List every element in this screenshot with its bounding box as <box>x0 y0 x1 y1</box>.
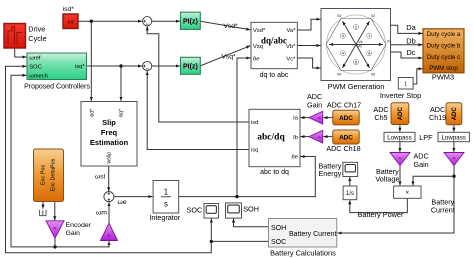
block Proposed Controllers <box>24 53 90 91</box>
svg-text:Battery Power: Battery Power <box>358 210 404 219</box>
wire encoder gain down to bottom bus <box>54 238 56 247</box>
svg-text:isd*: isd* <box>63 6 75 13</box>
block isd* reference constant <box>63 6 78 29</box>
block display SOC <box>204 204 219 219</box>
svg-text:Proposed Controllers: Proposed Controllers <box>24 84 90 91</box>
wire ADC ch17 to gain <box>324 117 333 119</box>
wire enc pos to terminator <box>42 202 44 209</box>
svg-text:Inverter Stop: Inverter Stop <box>380 91 421 100</box>
svg-text:ADC: ADC <box>398 107 404 121</box>
wire gain to Ib <box>301 136 309 138</box>
svg-text:Current: Current <box>431 205 455 214</box>
svg-text:s: s <box>164 200 168 209</box>
wire ADC ch5 to lowpass <box>399 125 401 132</box>
sum junction 3 (we) <box>104 192 114 202</box>
svg-text:Da: Da <box>406 23 416 32</box>
svg-text:V0: V0 <box>357 45 361 49</box>
wire wm up-gain to sum3 <box>108 203 110 223</box>
svg-text:×: × <box>405 190 409 197</box>
svg-text:Vb*: Vb* <box>286 44 296 50</box>
svg-text:Duty cycle a: Duty cycle a <box>427 31 461 38</box>
svg-text:Gain: Gain <box>414 160 429 169</box>
wire PWM out c to PWM3 <box>391 52 423 58</box>
block Lowpass 2 <box>438 132 469 141</box>
svg-text:Vsd*: Vsd* <box>253 28 266 34</box>
wire current down to battery calc <box>338 176 454 233</box>
gain triangle battery voltage ADC gain <box>390 152 429 169</box>
block PWM Generation <box>321 9 391 91</box>
wire wmech bottom bus <box>11 75 109 247</box>
node isd* branch <box>90 20 93 23</box>
svg-text:-K-: -K- <box>398 156 402 160</box>
wire isd* down to slip input 1 <box>90 21 92 100</box>
svg-text:Lowpass: Lowpass <box>441 135 465 142</box>
svg-text:SOH: SOH <box>271 225 286 232</box>
wire SOH to display <box>234 219 269 227</box>
svg-text:SOC: SOC <box>271 239 286 246</box>
svg-text:SOC: SOC <box>186 206 202 215</box>
svg-text:ADC: ADC <box>339 115 353 122</box>
svg-text:Battery Current: Battery Current <box>289 231 337 238</box>
wire current gain down <box>453 166 455 177</box>
svg-text:ADC Ch18: ADC Ch18 <box>326 144 360 153</box>
svg-text:Dc: Dc <box>406 48 415 57</box>
wire isd feedback abc/dq to sum1 <box>147 27 249 122</box>
svg-text:1: 1 <box>404 82 407 88</box>
svg-text:PWM stop: PWM stop <box>429 65 458 72</box>
wire theta-e up to dq/abc <box>237 58 250 197</box>
svg-text:Freq: Freq <box>101 128 118 137</box>
wire SOC feedback long <box>6 66 212 253</box>
svg-text:Drive: Drive <box>28 25 45 34</box>
block dq/abc <box>251 22 297 79</box>
wire PI(z)1 to dq/abc Vsd* <box>200 21 250 30</box>
svg-text:Battery Calculations: Battery Calculations <box>270 248 336 257</box>
svg-text:Enc Pos: Enc Pos <box>41 165 47 185</box>
svg-text:Lowpass: Lowpass <box>387 135 411 142</box>
svg-text:abc/dq: abc/dq <box>257 133 285 143</box>
svg-text:isq*: isq* <box>119 109 125 118</box>
wire sum1 to PI(z)1 <box>152 20 180 22</box>
block PI(z) 1 <box>181 12 201 29</box>
svg-text:V4: V4 <box>337 73 341 77</box>
svg-text:θe: θe <box>292 155 298 161</box>
block Enc Pos encoder <box>34 149 64 202</box>
svg-text:-K-: -K- <box>107 234 111 238</box>
svg-text:PI(z): PI(z) <box>183 19 198 26</box>
wire ADC ch19 to lowpass <box>453 125 455 132</box>
wire current branch to product <box>413 176 454 185</box>
block Integrator <box>149 181 180 223</box>
wire lowpass to adc gain 2 <box>453 142 455 152</box>
wire bus up into speed gain <box>108 242 110 247</box>
wire isq* PC to sum2 <box>87 65 142 67</box>
gain triangle Encoder Gain <box>46 221 92 239</box>
vector spokes <box>330 22 383 68</box>
svg-text:V1: V1 <box>387 40 391 44</box>
svg-text:V5: V5 <box>371 73 375 77</box>
space vector circle <box>327 15 386 74</box>
svg-text:ωm: ωm <box>96 210 107 217</box>
wire ADC ch18 to gain <box>324 136 333 138</box>
svg-text:-K-: -K- <box>53 226 57 230</box>
svg-text:Db: Db <box>406 36 415 45</box>
svg-text:Ib: Ib <box>293 135 298 141</box>
svg-text:Voltage: Voltage <box>375 175 399 184</box>
svg-text:Ch5: Ch5 <box>374 113 387 122</box>
svg-text:Gain: Gain <box>66 230 81 237</box>
wire PWM out a to PWM3 <box>391 25 423 33</box>
node theta-e branch <box>235 195 238 198</box>
svg-text:Energy: Energy <box>319 169 342 178</box>
wire enc deltapos to encoder gain <box>54 202 56 220</box>
wire 1/s to battery energy display <box>349 178 351 187</box>
wire drive cycle to wref <box>15 48 26 57</box>
block display Battery Energy <box>343 162 358 176</box>
svg-text:V2: V2 <box>371 14 375 18</box>
svg-text:abc to dq: abc to dq <box>260 169 289 176</box>
wire adc gain to product <box>399 166 401 186</box>
node encoder speed branch <box>53 245 56 248</box>
wire PWM out b to PWM3 <box>391 44 423 46</box>
svg-text:Encoder: Encoder <box>66 222 92 229</box>
svg-text:Ch19: Ch19 <box>429 113 446 122</box>
svg-text:Duty cycle b: Duty cycle b <box>427 43 461 50</box>
svg-text:isd: isd <box>251 120 258 126</box>
block PWM3 <box>423 29 464 82</box>
svg-text:Vsq*: Vsq* <box>221 54 236 61</box>
svg-text:V3: V3 <box>337 14 341 18</box>
svg-text:isq*: isq* <box>75 64 85 70</box>
svg-text:Va*: Va* <box>286 28 296 34</box>
sum junction 2 (isq) <box>143 61 152 70</box>
svg-text:Slip: Slip <box>102 118 116 127</box>
wire lowpass to adc gain <box>399 142 401 152</box>
svg-text:1: 1 <box>164 187 168 196</box>
wire Vb* to PWM gen <box>297 45 320 47</box>
node isq* branch <box>119 64 122 67</box>
node battery current branch <box>452 175 455 178</box>
sector numbers <box>340 24 372 64</box>
svg-text:θe: θe <box>253 56 259 62</box>
vertex labels <box>337 14 391 76</box>
svg-text:ωe: ωe <box>118 199 127 206</box>
block ADC Ch5 <box>391 103 409 125</box>
node SOC branch <box>210 240 213 243</box>
svg-text:dq/abc: dq/abc <box>261 36 287 46</box>
svg-text:-K-: -K- <box>452 156 456 160</box>
svg-text:PWM Generation: PWM Generation <box>328 82 385 91</box>
wire Vc* to PWM gen <box>297 58 320 68</box>
wire slip output wsl to sum3 <box>108 166 110 191</box>
svg-text:Vsd*: Vsd* <box>223 23 238 30</box>
hexagon perimeter <box>326 19 386 71</box>
block Drive Cycle <box>4 24 47 49</box>
gain triangle Ib <box>309 130 323 143</box>
wire isq* down to slip input 2 <box>120 66 122 100</box>
svg-text:-K-: -K- <box>318 116 322 120</box>
svg-text:Duty cycle c: Duty cycle c <box>427 54 460 61</box>
terminator symbol <box>40 210 46 216</box>
block Slip Freq Estimation <box>81 102 137 167</box>
gain triangle speed scaling <box>101 223 118 241</box>
svg-text:ADC Ch17: ADC Ch17 <box>327 100 361 109</box>
block abc/dq <box>249 109 300 176</box>
svg-text:Integrator: Integrator <box>149 213 180 222</box>
wire isd* ref to sum1 <box>78 20 142 22</box>
svg-text:SOC: SOC <box>29 65 42 71</box>
svg-text:Gain: Gain <box>307 100 322 109</box>
wire SOC from battery calc to display <box>211 219 268 241</box>
svg-text:ADC: ADC <box>339 135 353 142</box>
svg-text:LPF: LPF <box>419 133 433 142</box>
sum junction 1 (isd) <box>143 17 152 26</box>
svg-text:Cycle: Cycle <box>28 34 46 43</box>
svg-text:ADC: ADC <box>452 107 458 121</box>
wire product to 1/s battery power <box>350 198 408 212</box>
svg-text:PI(z): PI(z) <box>183 64 198 71</box>
svg-text:isd*: isd* <box>90 109 96 118</box>
svg-text:Vc*: Vc* <box>286 56 296 62</box>
svg-text:isq: isq <box>251 148 258 154</box>
svg-text:Vs: Vs <box>359 40 363 44</box>
block ADC Ch19 <box>446 103 462 125</box>
block 1/s battery energy integrator <box>343 186 357 200</box>
svg-text:ωmech: ωmech <box>29 74 48 80</box>
block display SOH <box>226 203 242 218</box>
block product (battery power) <box>394 186 421 198</box>
block ADC Ch18 <box>333 130 359 144</box>
svg-text:Enc DeltaPos: Enc DeltaPos <box>50 158 56 191</box>
wire isq feedback abc/dq to sum2 <box>147 72 249 150</box>
svg-text:ωsl: ωsl <box>95 173 106 180</box>
svg-text:-K-: -K- <box>318 135 322 139</box>
wire gain to Ia <box>301 117 309 119</box>
wire Va* to PWM gen <box>297 19 320 30</box>
block PI(z) 2 <box>181 57 201 74</box>
svg-text:ωref: ωref <box>29 55 41 61</box>
svg-text:Estimation: Estimation <box>90 138 129 147</box>
wire sum2 to PI(z)2 <box>152 65 180 67</box>
block Lowpass 1 <box>384 132 415 141</box>
svg-text:wslip: wslip <box>107 152 113 164</box>
svg-text:SOH: SOH <box>243 204 259 213</box>
svg-text:PWM3: PWM3 <box>432 73 454 82</box>
gain triangle battery current ADC gain <box>444 153 464 166</box>
block Inverter Stop constant 1 <box>380 78 421 101</box>
wire theta-e to abc/dq right input <box>301 157 315 197</box>
svg-text:dq to abc: dq to abc <box>260 72 289 79</box>
block ADC Ch17 <box>333 110 359 125</box>
wire integrator out to theta elbow <box>179 196 316 198</box>
wire PI(z)2 to dq/abc Vsq <box>200 46 250 66</box>
svg-text:1/s: 1/s <box>346 191 354 197</box>
svg-text:0.8: 0.8 <box>68 20 74 25</box>
svg-text:Ia: Ia <box>293 116 299 122</box>
block Battery Calculations <box>269 219 337 258</box>
wire inverter stop to PWM3 <box>413 69 422 84</box>
wire sum3 we to integrator <box>114 196 152 198</box>
gain triangle Ia <box>309 111 323 124</box>
